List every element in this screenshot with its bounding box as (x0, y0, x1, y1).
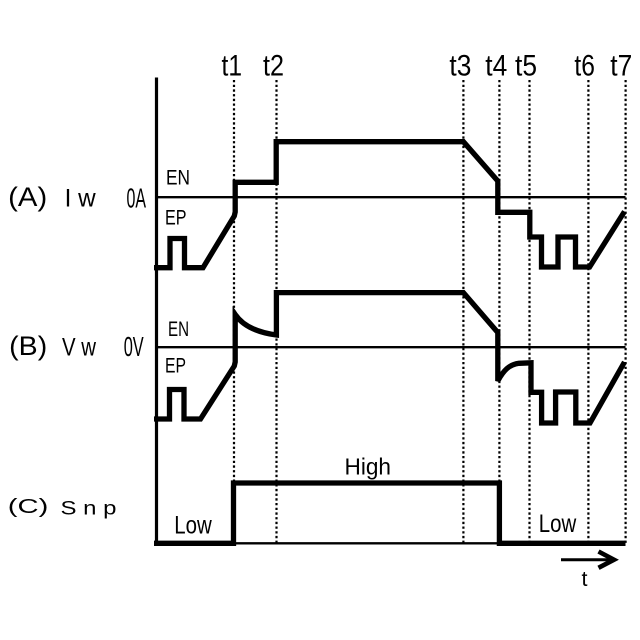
dotted timing line t7 (624, 80, 626, 544)
svg-text:(A): (A) (8, 182, 47, 212)
time arrow shaft (561, 558, 612, 561)
waveform B (Vw voltage trace) (154, 293, 625, 423)
svg-text:EP: EP (165, 206, 187, 230)
svg-text:t5: t5 (515, 50, 537, 83)
svg-text:S n p: S n p (61, 498, 117, 520)
svg-text:t1: t1 (222, 50, 243, 83)
svg-text:V w: V w (62, 334, 97, 362)
zero line 0V (waveform B axis) (156, 346, 626, 348)
dotted timing line t1 (233, 80, 235, 544)
zero line 0A (waveform A axis) (156, 196, 626, 198)
svg-text:t: t (582, 567, 588, 591)
svg-text:Low: Low (539, 510, 577, 538)
svg-text:EP: EP (165, 354, 186, 378)
svg-text:t2: t2 (263, 50, 284, 83)
svg-text:I w: I w (65, 184, 97, 212)
baseline of waveform C (thin) (156, 542, 626, 544)
dotted timing line t5 (528, 80, 530, 544)
svg-text:EN: EN (166, 166, 190, 190)
dotted timing line t3 (462, 80, 464, 544)
svg-text:(C): (C) (8, 496, 49, 518)
svg-text:(B): (B) (9, 331, 47, 361)
svg-text:t4: t4 (485, 50, 507, 83)
waveform C (Snp logic trace) (154, 483, 626, 543)
svg-text:High: High (345, 454, 392, 480)
svg-text:t7: t7 (610, 50, 632, 83)
dotted timing line t2 (275, 80, 277, 544)
svg-text:t6: t6 (574, 50, 595, 83)
svg-text:Low: Low (174, 512, 212, 540)
svg-text:EN: EN (168, 317, 189, 341)
dotted timing line t4 (498, 80, 500, 544)
svg-text:t3: t3 (449, 50, 471, 83)
vertical axis (155, 78, 158, 546)
time arrow head (599, 552, 615, 568)
dotted timing line t6 (587, 80, 589, 544)
waveform A (Iw current trace) (154, 142, 625, 268)
svg-text:0A: 0A (127, 182, 147, 213)
svg-text:0V: 0V (124, 331, 144, 362)
